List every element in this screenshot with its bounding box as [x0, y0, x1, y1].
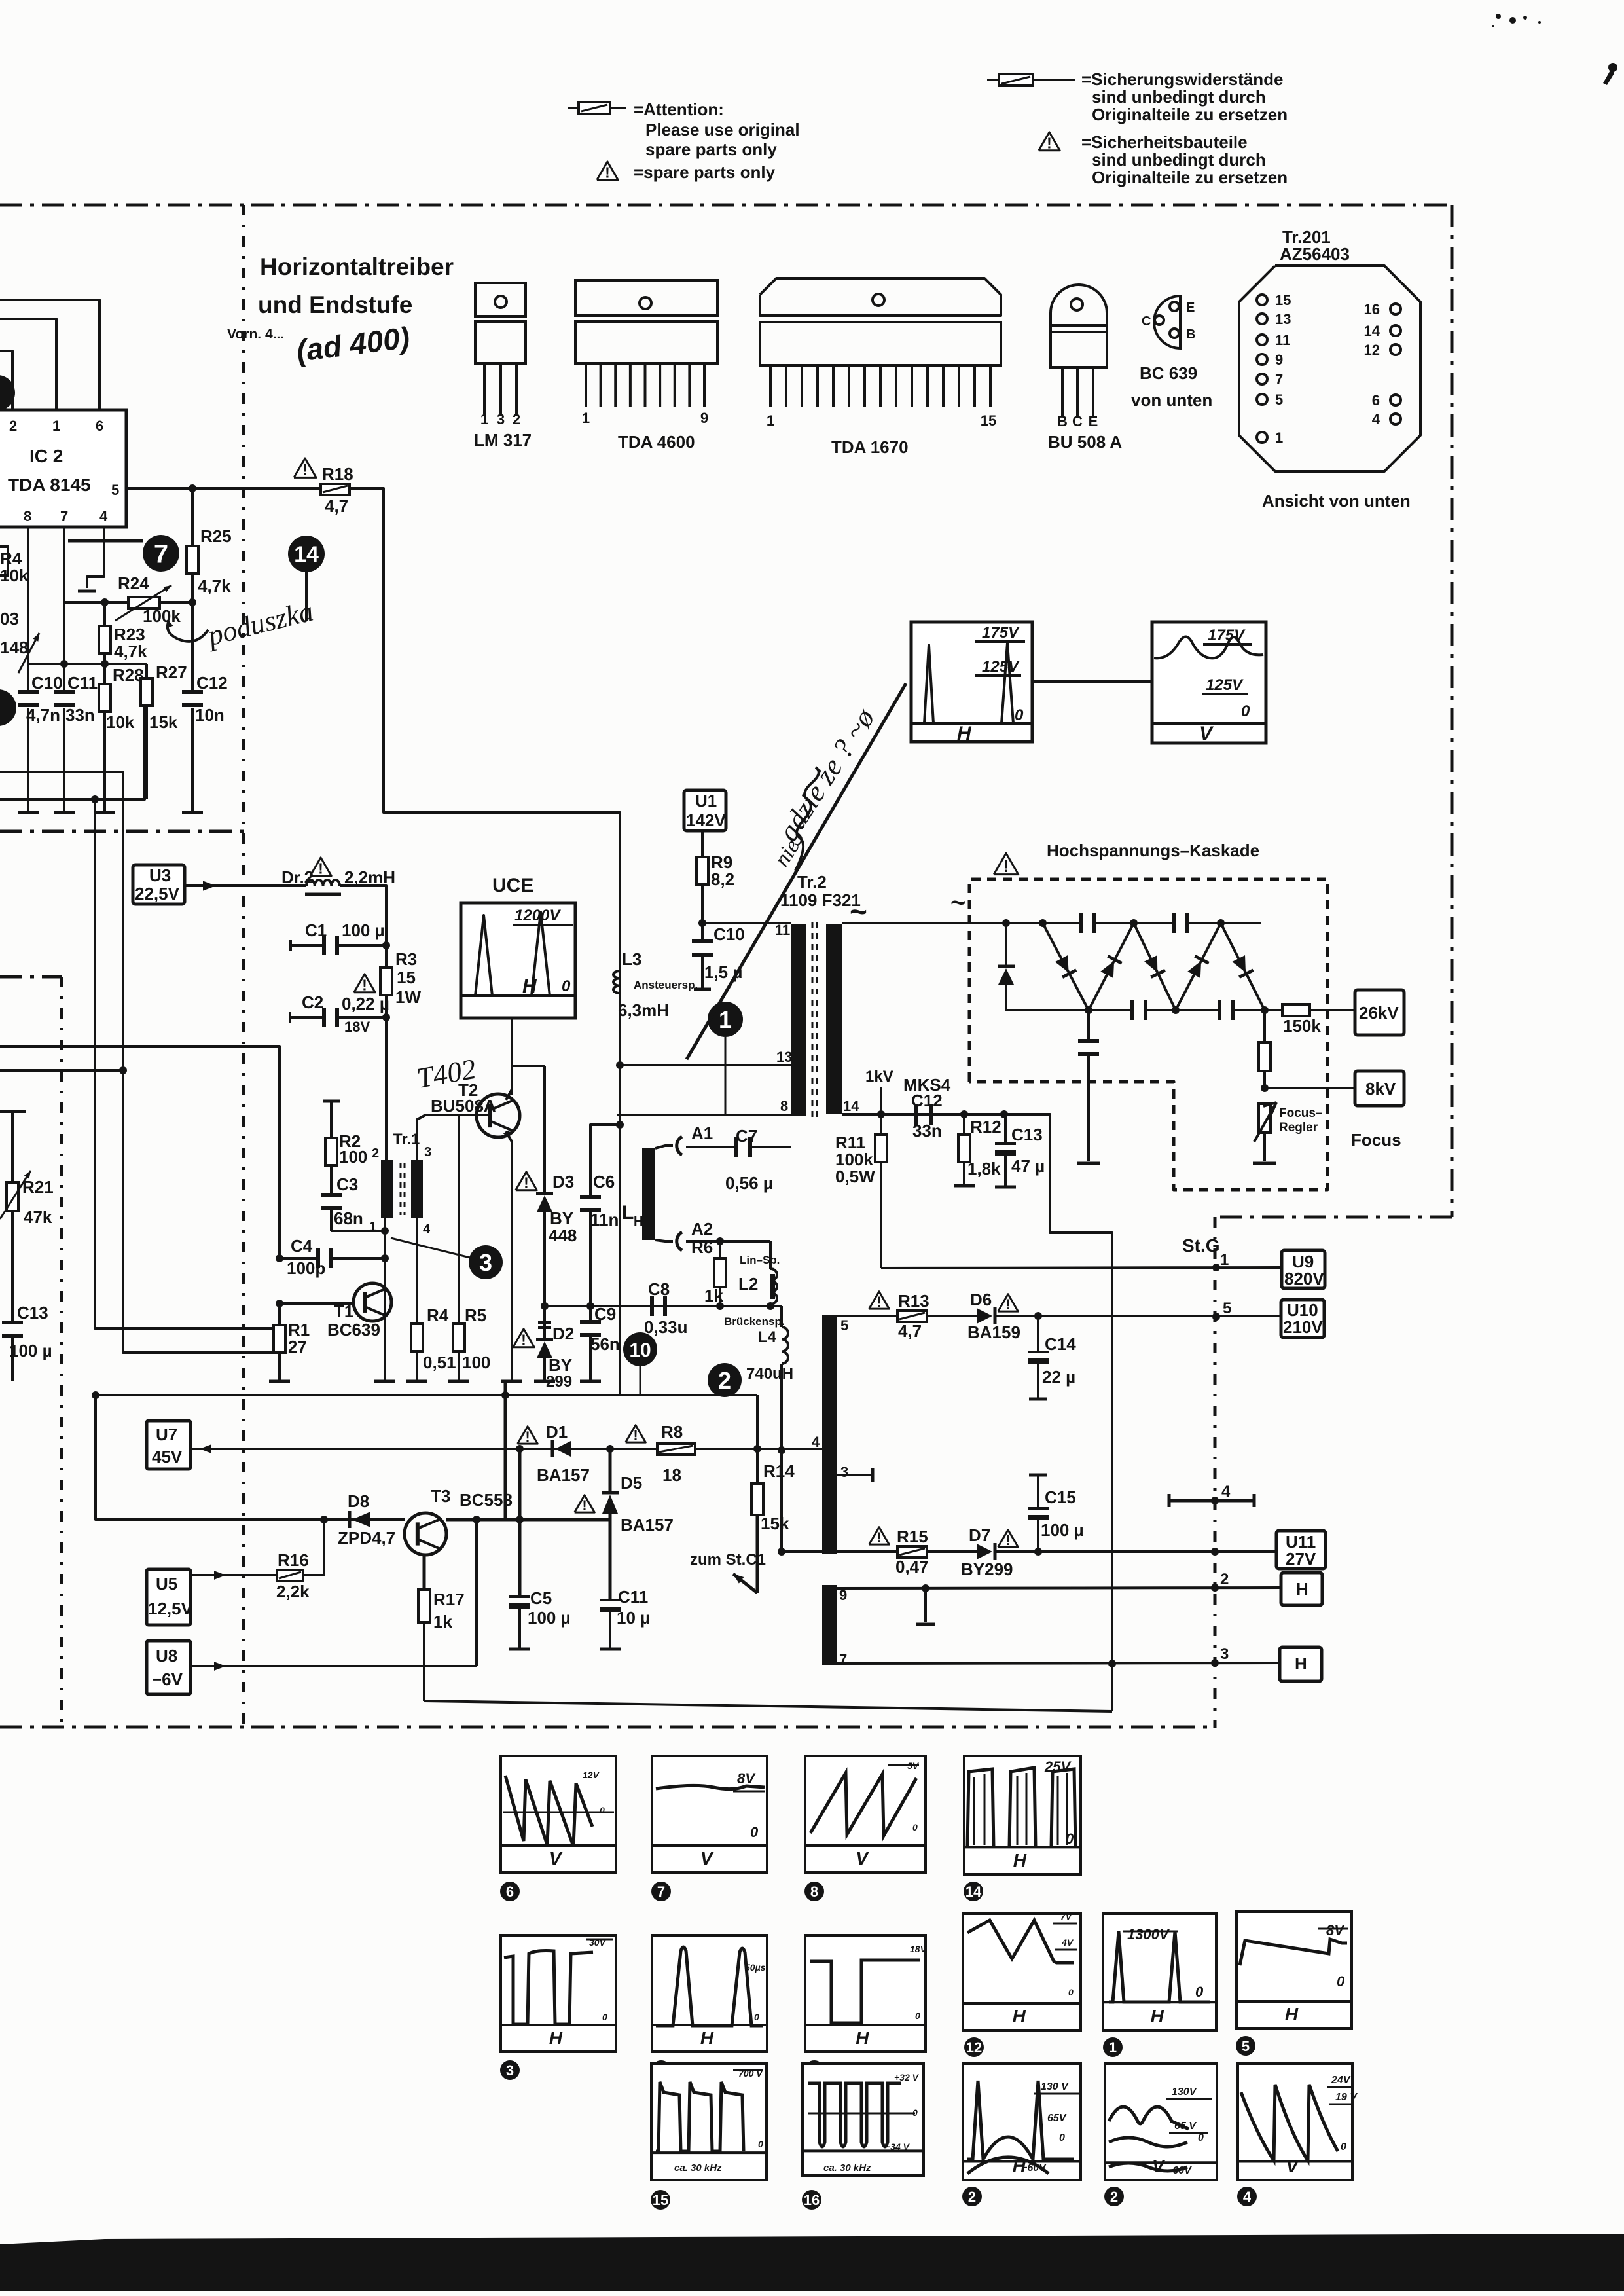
- svg-text:V: V: [549, 1848, 563, 1868]
- wire U3 to Dr.2 with arrow: [185, 884, 306, 887]
- svg-text:Originalteile zu ersetzen: Originalteile zu ersetzen: [1092, 168, 1288, 187]
- svg-text:AZ56403: AZ56403: [1280, 244, 1350, 264]
- svg-text:0,56 µ: 0,56 µ: [725, 1173, 773, 1193]
- Kaskade top rail: [969, 922, 1081, 924]
- svg-text:5: 5: [1223, 1300, 1231, 1317]
- svg-text:0: 0: [1068, 1987, 1074, 1997]
- svg-text:125V: 125V: [1206, 676, 1244, 694]
- waveform box 1: [1103, 1914, 1216, 2030]
- svg-text:1: 1: [767, 412, 774, 429]
- svg-text:R6: R6: [691, 1237, 713, 1257]
- box U5 12,5V: [147, 1569, 190, 1625]
- svg-text:BC 639: BC 639: [1140, 363, 1197, 383]
- svg-text:C12: C12: [196, 673, 228, 693]
- border dash-dot stub y1492: [0, 975, 62, 979]
- resistor R11 100k 0,5W: [880, 1114, 882, 1135]
- wire T2 emitter to ground: [506, 1131, 512, 1381]
- svg-text:100 µ: 100 µ: [9, 1341, 52, 1360]
- resistor R17 1k: [423, 1555, 426, 1590]
- svg-text:R3: R3: [395, 949, 417, 969]
- wire R18 to Tr2 pin13: [350, 488, 620, 1065]
- svg-text:spare parts only: spare parts only: [645, 139, 777, 159]
- Kaskade mid rail: [1089, 1009, 1132, 1011]
- svg-text:8: 8: [24, 508, 31, 524]
- svg-text:H: H: [856, 2028, 869, 2048]
- box 26kV: [1355, 990, 1404, 1035]
- svg-text:26kV: 26kV: [1359, 1003, 1399, 1023]
- Tr.2 secondary top winding: [826, 924, 842, 1114]
- svg-text:0,33u: 0,33u: [644, 1317, 688, 1337]
- svg-text:5: 5: [1242, 2038, 1250, 2054]
- Kaskade focus divider resistor: [1263, 1010, 1266, 1042]
- svg-text:150k: 150k: [1283, 1016, 1321, 1036]
- transistor T3 BC558: [405, 1513, 446, 1555]
- svg-text:ZPD4,7: ZPD4,7: [338, 1528, 395, 1548]
- resistor R25 4,7k: [191, 488, 194, 546]
- svg-text:0: 0: [915, 2011, 920, 2021]
- svg-text:!: !: [876, 1294, 881, 1310]
- capacitor C11 10u: [609, 1520, 612, 1599]
- svg-text:4: 4: [1243, 2189, 1252, 2205]
- waveform number 2: [1104, 2187, 1124, 2206]
- svg-text:von unten: von unten: [1131, 390, 1212, 410]
- svg-text:1,8k: 1,8k: [967, 1159, 1001, 1178]
- svg-text:0: 0: [602, 2012, 607, 2022]
- deflection coil LH: [642, 1148, 655, 1240]
- wire Dr2 to R3 column: [340, 886, 386, 941]
- svg-text:10k: 10k: [106, 712, 135, 732]
- capacitor C8 0,33u: [650, 1296, 654, 1316]
- numbered node 2: [708, 1363, 742, 1397]
- svg-text:H: H: [1295, 1654, 1307, 1673]
- bridge coil L4 740uH: [782, 1327, 788, 1364]
- numbered node 7: [68, 539, 143, 543]
- numbered node 1: [708, 1002, 743, 1037]
- svg-text:C6: C6: [593, 1172, 615, 1192]
- svg-text:R8: R8: [661, 1422, 683, 1442]
- svg-text:H: H: [634, 1214, 643, 1229]
- waveform box 6: [501, 1756, 616, 1872]
- wire R3 down to Tr1: [385, 1017, 388, 1160]
- svg-text:7: 7: [1275, 371, 1283, 388]
- svg-text:V: V: [700, 1848, 714, 1868]
- svg-text:27V: 27V: [1286, 1549, 1316, 1569]
- svg-text:C9: C9: [594, 1304, 616, 1324]
- scope box H 175V: [911, 622, 1032, 742]
- border dash-dot right: [1451, 205, 1454, 1217]
- svg-text:6: 6: [506, 1884, 514, 1900]
- warning triangle D1: [518, 1427, 538, 1444]
- resistor R4 0,51: [416, 1218, 418, 1324]
- svg-text:C12: C12: [911, 1091, 943, 1110]
- svg-text:Hochspannungs–Kaskade: Hochspannungs–Kaskade: [1047, 841, 1259, 860]
- box H upper: [1281, 1573, 1322, 1605]
- wire pin9 to H: [837, 1588, 1281, 1588]
- svg-text:3: 3: [497, 411, 505, 428]
- svg-text:11: 11: [1275, 332, 1290, 348]
- capacitor C13 47u: [1004, 1114, 1007, 1143]
- Tr.2 secondary wire to Kaskade: [842, 922, 1006, 924]
- svg-text:=Sicherheitsbauteile: =Sicherheitsbauteile: [1081, 132, 1248, 152]
- svg-text:1: 1: [1109, 2039, 1117, 2056]
- svg-text:4,7k: 4,7k: [198, 576, 231, 596]
- svg-text:6: 6: [1372, 392, 1380, 409]
- svg-text:1300V: 1300V: [1127, 1926, 1170, 1942]
- warning triangle Dr.2: [310, 858, 331, 876]
- svg-text:2: 2: [9, 418, 17, 434]
- svg-text:R21: R21: [22, 1177, 54, 1197]
- svg-text:10k: 10k: [0, 566, 29, 585]
- svg-text:5: 5: [1275, 392, 1283, 408]
- svg-text:45V: 45V: [152, 1447, 183, 1467]
- connector A1: [677, 1137, 682, 1155]
- warning triangle D7: [998, 1530, 1019, 1547]
- svg-text:22 µ: 22 µ: [1042, 1367, 1075, 1387]
- svg-text:!: !: [582, 1497, 586, 1514]
- wire x728 up: [475, 1520, 478, 1666]
- svg-text:10 µ: 10 µ: [617, 1608, 650, 1628]
- svg-text:2: 2: [513, 411, 520, 428]
- svg-text:12: 12: [1364, 342, 1380, 358]
- svg-text:8V: 8V: [1326, 1922, 1345, 1939]
- svg-text:0: 0: [1337, 1973, 1345, 1990]
- svg-text:!: !: [876, 1529, 881, 1546]
- svg-text:6: 6: [96, 418, 103, 434]
- svg-text:18: 18: [662, 1465, 681, 1485]
- wire y1635: [0, 1069, 123, 1072]
- svg-text:65V: 65V: [1047, 2113, 1067, 2124]
- resistor R13 4,7 fuse: [837, 1315, 897, 1317]
- svg-text:4: 4: [423, 1222, 431, 1237]
- svg-text:100 µ: 100 µ: [528, 1608, 571, 1628]
- wire D1 junction down to bus: [518, 1449, 522, 1520]
- svg-text:4: 4: [812, 1434, 820, 1450]
- svg-text:50µs: 50µs: [745, 1962, 766, 1973]
- svg-text:R5: R5: [465, 1305, 486, 1325]
- border dash-dot partition left y1270: [0, 830, 244, 833]
- svg-text:H: H: [549, 2028, 563, 2048]
- svg-text:TDA 1670: TDA 1670: [831, 437, 909, 457]
- waveform box 12: [963, 1914, 1081, 2030]
- svg-text:2: 2: [968, 2189, 976, 2205]
- waveform box 4: [1238, 2064, 1352, 2180]
- connector A2: [677, 1232, 682, 1250]
- svg-text:0: 0: [1195, 1984, 1204, 2000]
- wire between scope boxes: [1032, 680, 1152, 683]
- svg-text:!: !: [1003, 856, 1009, 876]
- border dash-dot St.G vertical: [1214, 1217, 1217, 1728]
- svg-text:1109 F321: 1109 F321: [780, 890, 861, 910]
- svg-text:1k: 1k: [704, 1286, 723, 1305]
- svg-text:U3: U3: [149, 866, 171, 885]
- wire IC2 pin8: [27, 527, 29, 664]
- transistor T1 BC639: [353, 1283, 391, 1321]
- svg-text:15: 15: [1275, 292, 1291, 308]
- emitter bus y1995: [545, 1305, 782, 1307]
- svg-text:0,22 µ: 0,22 µ: [342, 994, 389, 1013]
- svg-text:C14: C14: [1045, 1334, 1076, 1354]
- St.G pin4 link bar: [1169, 1499, 1254, 1503]
- svg-text:33n: 33n: [65, 705, 95, 725]
- svg-text:210V: 210V: [1283, 1317, 1323, 1337]
- svg-text:1k: 1k: [433, 1612, 452, 1631]
- pin3 stub: [837, 1474, 873, 1476]
- warning triangle R13: [869, 1292, 890, 1309]
- pen squiggle near Tr2: [795, 767, 819, 871]
- waveform box 2: [963, 2064, 1081, 2180]
- resistor R8 18 fuse: [657, 1444, 695, 1455]
- IC U2 TDA8145: [0, 410, 126, 527]
- Kaskade diode left: [1005, 923, 1007, 966]
- svg-text:BA157: BA157: [537, 1465, 590, 1485]
- svg-text:H: H: [957, 723, 972, 744]
- wire pin7 to H: [837, 1663, 1280, 1664]
- svg-text:14: 14: [843, 1098, 859, 1114]
- svg-text:R27: R27: [156, 663, 187, 682]
- scope box V 175V: [1152, 622, 1266, 743]
- svg-text:2: 2: [372, 1146, 379, 1161]
- pen stroke diagonal: [687, 683, 906, 1059]
- waveform number 12: [964, 2037, 984, 2057]
- waveform box 7: [652, 1756, 767, 1872]
- capacitor C7 0,56u: [686, 1146, 734, 1148]
- svg-text:6,3mH: 6,3mH: [618, 1000, 669, 1020]
- warning triangle D2: [513, 1329, 534, 1347]
- svg-text:H: H: [700, 2028, 714, 2048]
- svg-text:4: 4: [1372, 411, 1380, 428]
- svg-text:1W: 1W: [395, 987, 421, 1007]
- wire y1703 pin8: [617, 1114, 791, 1116]
- svg-text:BA157: BA157: [621, 1515, 674, 1535]
- warning triangle D5: [575, 1495, 595, 1512]
- svg-text:15: 15: [981, 412, 996, 429]
- waveform number 5: [1236, 2036, 1255, 2056]
- svg-text:33n: 33n: [912, 1121, 942, 1140]
- svg-text:C13: C13: [1011, 1125, 1043, 1144]
- svg-text:0: 0: [1341, 2141, 1346, 2153]
- svg-text:TDA 4600: TDA 4600: [618, 432, 695, 452]
- svg-text:H: H: [1285, 2004, 1299, 2024]
- svg-text:UCE: UCE: [492, 875, 533, 896]
- svg-text:Regler: Regler: [1279, 1121, 1318, 1135]
- svg-text:7: 7: [839, 1651, 847, 1667]
- wire C3 to Tr1 pin1: [331, 1230, 385, 1232]
- svg-text:2: 2: [1110, 2189, 1118, 2205]
- wire x146 down to T3 base: [96, 1395, 405, 1520]
- svg-text:9: 9: [1275, 352, 1283, 368]
- svg-text:Brückensp.: Brückensp.: [724, 1315, 785, 1328]
- svg-text:68n: 68n: [334, 1209, 363, 1228]
- svg-text:−6V: −6V: [152, 1669, 183, 1689]
- svg-text:D2: D2: [552, 1324, 574, 1343]
- node circle left edge lower: [0, 689, 16, 726]
- svg-text:T3: T3: [431, 1486, 450, 1506]
- svg-text:5: 5: [840, 1317, 848, 1334]
- svg-text:65 V: 65 V: [1174, 2121, 1197, 2132]
- wire y1014 bus: [28, 663, 147, 665]
- svg-text:8: 8: [780, 1098, 788, 1114]
- svg-text:0: 0: [600, 1805, 605, 1815]
- svg-text:0: 0: [562, 977, 571, 995]
- svg-text:1: 1: [582, 410, 590, 426]
- svg-text:D8: D8: [348, 1491, 369, 1511]
- diode D6 BA159: [977, 1308, 992, 1324]
- svg-text:R16: R16: [278, 1550, 309, 1570]
- svg-text:L3: L3: [622, 949, 641, 969]
- svg-text:9: 9: [700, 410, 708, 426]
- waveform number 8: [804, 1882, 824, 1901]
- capacitor C1 100u: [289, 940, 292, 951]
- waveform number 14: [964, 1882, 983, 1901]
- svg-text:R15: R15: [897, 1527, 928, 1546]
- svg-text:C1: C1: [305, 920, 327, 940]
- svg-text:16: 16: [1364, 301, 1380, 318]
- wire y1410 to Tr2 pin11: [702, 922, 791, 924]
- svg-text:und Endstufe: und Endstufe: [258, 291, 412, 318]
- waveform number 2: [962, 2187, 982, 2206]
- svg-text:H: H: [1296, 1579, 1308, 1599]
- svg-text:2,2mH: 2,2mH: [344, 867, 395, 887]
- capacitor C6 11n: [590, 1125, 620, 1197]
- svg-text:H: H: [522, 975, 537, 997]
- wire T2 emitter continuation: [504, 1381, 507, 1520]
- svg-text:12: 12: [966, 2039, 982, 2056]
- svg-text:!: !: [1005, 1532, 1010, 1548]
- scan artifact black bar bottom: [0, 2234, 1624, 2291]
- svg-text:100p: 100p: [287, 1258, 325, 1278]
- warning triangle R3: [354, 974, 375, 993]
- svg-text:0,51: 0,51: [423, 1353, 456, 1372]
- svg-text:3: 3: [1220, 1645, 1229, 1663]
- capacitor C4 100p: [280, 1257, 318, 1260]
- svg-text:St.G: St.G: [1182, 1235, 1220, 1256]
- box U9 820V: [1282, 1250, 1325, 1288]
- svg-text:175V: 175V: [982, 624, 1020, 642]
- diode D3 BY448: [543, 1066, 546, 1194]
- svg-text:R24: R24: [118, 574, 149, 593]
- svg-text:C15: C15: [1045, 1487, 1076, 1507]
- capacitor C11 33n: [63, 602, 65, 693]
- resistor R6 1k: [719, 1241, 721, 1258]
- svg-text:47 µ: 47 µ: [1011, 1156, 1045, 1176]
- svg-text:+32 V: +32 V: [894, 2072, 920, 2083]
- svg-text:V: V: [856, 1848, 869, 1868]
- svg-text:C11: C11: [67, 673, 98, 693]
- svg-text:Tr.1: Tr.1: [393, 1131, 420, 1148]
- svg-text:2: 2: [1220, 1571, 1229, 1588]
- svg-text:!: !: [521, 1332, 526, 1349]
- svg-text:L: L: [622, 1202, 634, 1224]
- Tr.2 core: [812, 922, 814, 1121]
- svg-text:R4: R4: [427, 1305, 449, 1325]
- svg-text:14: 14: [965, 1884, 982, 1900]
- Kaskade diode diag 5: [1221, 923, 1265, 1010]
- svg-text:T1: T1: [334, 1302, 353, 1321]
- capacitor C9 56n: [589, 1306, 592, 1322]
- svg-text:Dr.2: Dr.2: [281, 867, 314, 887]
- svg-text:14: 14: [1364, 323, 1380, 339]
- svg-text:3: 3: [424, 1145, 431, 1159]
- resistor R23 4,7k: [103, 602, 106, 626]
- node circle left edge upper: [0, 375, 15, 410]
- diode D8 ZPD4,7: [352, 1512, 370, 1527]
- resistor 150k to 26kV: [1265, 1009, 1282, 1011]
- svg-text:Lin–Sp.: Lin–Sp.: [740, 1254, 780, 1266]
- svg-text:−60V: −60V: [1166, 2165, 1192, 2176]
- border dash-dot partition vertical x375: [242, 205, 245, 1727]
- Kaskade diode diag 4: [1176, 923, 1221, 1010]
- svg-text:C4: C4: [291, 1236, 313, 1256]
- svg-text:BA159: BA159: [967, 1322, 1020, 1342]
- svg-text:1kV: 1kV: [865, 1068, 893, 1085]
- svg-text:130 V: 130 V: [1041, 2081, 1069, 2092]
- wire pin14 net: [842, 1114, 1112, 1711]
- svg-text:0: 0: [1015, 706, 1024, 724]
- svg-text:820V: 820V: [1284, 1269, 1324, 1288]
- warning triangle R8: [626, 1425, 646, 1442]
- svg-text:15: 15: [653, 2192, 668, 2208]
- wire IC2 pin4 to ground: [87, 527, 104, 588]
- svg-text:7: 7: [154, 539, 168, 568]
- diode D5 BA157: [609, 1449, 612, 1493]
- svg-text:4,7n: 4,7n: [26, 705, 60, 725]
- Kaskade diode diag 2: [1089, 923, 1134, 1010]
- svg-text:D6: D6: [970, 1290, 992, 1309]
- wire loop y1179: [0, 772, 274, 1353]
- svg-text:18V: 18V: [910, 1944, 928, 1954]
- svg-text:100: 100: [462, 1353, 490, 1372]
- wire pin2 loop: [0, 351, 12, 410]
- svg-text:V: V: [1152, 2156, 1166, 2176]
- svg-text:10n: 10n: [195, 705, 225, 725]
- wire U5 to R16: [190, 1574, 277, 1576]
- svg-text:130V: 130V: [1172, 2086, 1197, 2098]
- svg-text:15: 15: [397, 968, 416, 987]
- svg-text:4,7k: 4,7k: [114, 642, 147, 661]
- box U7 45V: [147, 1421, 190, 1469]
- svg-text:BY299: BY299: [961, 1559, 1013, 1579]
- numbered node 10: [623, 1332, 657, 1366]
- resistor R28 10k: [103, 664, 106, 684]
- resistor R16 2,2k fuse: [277, 1570, 303, 1581]
- svg-text:14: 14: [294, 542, 319, 567]
- svg-text:0: 0: [1241, 702, 1250, 720]
- svg-text:56n: 56n: [590, 1334, 620, 1354]
- wire R17 bottom long: [424, 1701, 1112, 1711]
- svg-text:BY: BY: [549, 1355, 572, 1375]
- svg-text:0: 0: [1059, 2132, 1065, 2143]
- waveform number 7: [651, 1882, 671, 1901]
- capacitor C10 1,5u: [701, 923, 704, 941]
- svg-text:15k: 15k: [149, 712, 178, 732]
- Kaskade cap top 1: [1079, 913, 1083, 933]
- scan specks top right: [1496, 14, 1501, 19]
- wire LH top to A1: [655, 1146, 673, 1148]
- svg-text:19 V: 19 V: [1335, 2092, 1358, 2103]
- Kaskade cap top 2: [1172, 913, 1176, 933]
- svg-text:25V: 25V: [1044, 1758, 1072, 1775]
- resistor R12 1,8k: [963, 1114, 965, 1135]
- Tr.2 primary winding: [791, 924, 806, 1116]
- inductor Dr.2 2,2mH: [306, 880, 340, 886]
- Kaskade cap mid 1: [1130, 1000, 1134, 1020]
- resistor R3 15 1W: [385, 941, 388, 968]
- capacitor C13 100u left: [11, 1211, 14, 1322]
- resistor R18 4,7 fuse: [321, 484, 350, 495]
- svg-text:D7: D7: [969, 1525, 990, 1545]
- svg-text:BC639: BC639: [327, 1320, 380, 1339]
- svg-text:1: 1: [1220, 1251, 1229, 1269]
